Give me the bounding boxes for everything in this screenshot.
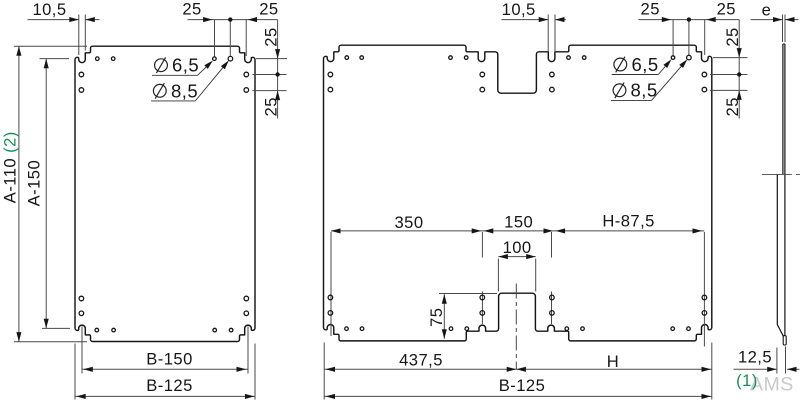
svg-text:12,5: 12,5: [738, 348, 772, 367]
svg-text:8,5: 8,5: [631, 80, 658, 101]
svg-text:H-87,5: H-87,5: [602, 212, 655, 231]
svg-text:B-125: B-125: [146, 376, 193, 395]
svg-text:H: H: [607, 352, 619, 371]
svg-text:25: 25: [641, 0, 660, 18]
svg-text:25: 25: [717, 0, 736, 18]
svg-text:6,5: 6,5: [632, 54, 659, 75]
svg-text:10,5: 10,5: [32, 0, 66, 19]
svg-text:25: 25: [261, 97, 280, 116]
svg-text:100: 100: [503, 238, 532, 257]
svg-text:10,5: 10,5: [502, 0, 536, 19]
svg-text:25: 25: [182, 0, 201, 18]
svg-text:350: 350: [394, 213, 423, 232]
svg-text:B-150: B-150: [146, 350, 193, 369]
svg-text:A-150: A-150: [25, 160, 44, 207]
svg-text:8,5: 8,5: [171, 81, 198, 102]
svg-text:25: 25: [259, 0, 278, 18]
svg-text:25: 25: [261, 27, 280, 46]
svg-text:e: e: [762, 0, 772, 19]
svg-text:25: 25: [723, 27, 742, 46]
svg-text:25: 25: [723, 97, 742, 116]
svg-text:(1): (1): [736, 371, 758, 390]
svg-text:6,5: 6,5: [172, 55, 199, 76]
svg-text:75: 75: [427, 308, 446, 327]
svg-text:437,5: 437,5: [399, 350, 443, 369]
svg-text:150: 150: [504, 212, 533, 231]
svg-text:A-110 (2): A-110 (2): [0, 131, 19, 203]
svg-text:B-125: B-125: [499, 376, 546, 395]
